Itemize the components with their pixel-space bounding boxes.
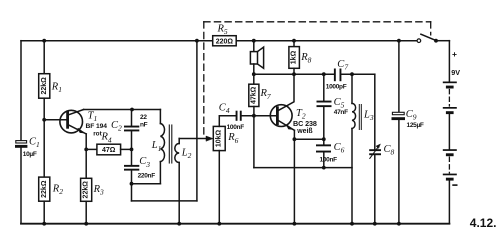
- wire C3 bottom column: [131, 171, 133, 201]
- wire top rail left segment: [21, 40, 213, 42]
- svg-text:100nF: 100nF: [320, 157, 338, 164]
- wire bottom rail: [21, 223, 449, 225]
- node base tap T1: [42, 118, 46, 122]
- node R4 right junction: [130, 148, 134, 152]
- wire T1 collector rail: [84, 109, 161, 111]
- node bottom R6: [217, 222, 221, 226]
- node C3 bottom junction: [130, 182, 134, 186]
- capacitor C7: [334, 69, 342, 82]
- svg-text:22kΩ: 22kΩ: [41, 77, 48, 95]
- node supply column top: [195, 39, 199, 43]
- wire L2 top to R6 with arrow: [179, 138, 207, 140]
- svg-text:100nF: 100nF: [227, 124, 245, 131]
- wire R8 bottom lead: [293, 68, 295, 74]
- battery 9V: [443, 41, 458, 224]
- wire C8 column upper: [374, 74, 376, 149]
- capacitor C9: [392, 112, 406, 120]
- wire R2 to bottom rail: [43, 201, 45, 224]
- node L3 top junction: [350, 72, 354, 76]
- wire C2 column top: [131, 110, 133, 127]
- switch S: [417, 34, 449, 42]
- wire mid rail: [254, 73, 335, 75]
- svg-text:rot: rot: [93, 130, 102, 137]
- L3 core: [359, 105, 361, 130]
- speaker LS: [250, 47, 263, 68]
- wire R6 bottom: [218, 151, 220, 224]
- inductor L1: [160, 110, 164, 184]
- node emitter R4 tap: [84, 148, 88, 152]
- resistor R7: [249, 84, 259, 106]
- svg-text:22: 22: [140, 114, 147, 121]
- wire base T1: [44, 119, 67, 121]
- svg-text:22kΩ: 22kΩ: [41, 180, 48, 198]
- svg-text:10µF: 10µF: [23, 151, 37, 158]
- wire R8 top lead: [293, 41, 295, 47]
- node speaker R7 junction: [252, 72, 256, 76]
- resistor R4: [97, 144, 121, 155]
- wire R1 to base tap: [43, 98, 45, 177]
- inductor L3: [352, 74, 356, 224]
- node R8 top rail: [292, 39, 296, 43]
- transistor T1: [60, 110, 86, 134]
- wire C9 column upper: [398, 41, 400, 113]
- wire base node to C6 bottom: [254, 167, 352, 169]
- wire C4 to T2 base: [242, 115, 277, 117]
- wire R4 left lead: [86, 148, 97, 150]
- wire R7 bottom lead: [253, 107, 255, 116]
- node emitter wire at C5C6 column: [322, 137, 326, 141]
- wire top rail right segment: [236, 40, 417, 42]
- capacitor C3: [124, 165, 139, 171]
- svg-text:weiß: weiß: [296, 128, 313, 135]
- node top rail R1 junction: [42, 39, 46, 43]
- capacitor C8 trimmer: [369, 144, 381, 158]
- wire T2 collector: [278, 74, 294, 111]
- node C6 bottom junction: [322, 166, 326, 170]
- node emitter bottom rail: [293, 222, 297, 226]
- svg-text:220nF: 220nF: [138, 172, 156, 179]
- capacitor C2: [124, 126, 139, 132]
- resistor R3: [81, 178, 92, 201]
- svg-text:+: +: [452, 49, 457, 59]
- resistor R1: [39, 74, 50, 99]
- node emitter branch: [293, 137, 297, 141]
- node collector C2 junction: [130, 108, 134, 112]
- node L3 bottom rail: [350, 222, 354, 226]
- node speaker top rail: [252, 39, 256, 43]
- wire R3 to bottom rail: [85, 201, 87, 223]
- wire C6 bottom lead: [323, 153, 325, 168]
- wire R1 column upper: [43, 41, 45, 74]
- node bottom R3: [84, 222, 88, 226]
- transistor T2: [270, 105, 294, 131]
- resistor R5: [213, 36, 237, 46]
- wire T2 emitter column: [293, 130, 295, 223]
- wire C5 top lead: [323, 74, 325, 101]
- node C5 top junction: [322, 72, 326, 76]
- resistor R8: [289, 47, 300, 69]
- wire emitter to C6 top: [294, 138, 323, 140]
- svg-text:BF 194: BF 194: [86, 123, 108, 130]
- wire speaker bottom: [253, 64, 255, 74]
- resistor R2: [39, 177, 50, 201]
- resistor R6: [213, 126, 225, 150]
- wire C7 right to C8 corner: [341, 73, 374, 75]
- svg-text:47Ω: 47Ω: [102, 147, 116, 154]
- svg-text:1kΩ: 1kΩ: [291, 50, 298, 64]
- node L2 bottom rail: [177, 222, 181, 226]
- svg-text:BC 238: BC 238: [293, 119, 317, 128]
- svg-text:22kΩ: 22kΩ: [83, 181, 90, 199]
- svg-text:220Ω: 220Ω: [216, 38, 234, 45]
- capacitor C4: [236, 111, 242, 121]
- svg-text:4.12.: 4.12.: [470, 216, 497, 230]
- capacitor C6: [316, 144, 331, 152]
- svg-text:47kΩ: 47kΩ: [250, 86, 257, 104]
- wire C3 junction to L1 bottom: [132, 183, 161, 185]
- svg-text:10kΩ: 10kΩ: [216, 129, 223, 147]
- node C8 bottom rail: [373, 222, 377, 226]
- wire left rail upper: [20, 41, 22, 141]
- wire R6 top to C4: [219, 116, 236, 127]
- wire speaker top: [253, 41, 255, 52]
- wire C2 to C3: [131, 131, 133, 165]
- svg-text:125µF: 125µF: [407, 122, 424, 129]
- node C9 bottom rail: [397, 222, 401, 226]
- transformer core: [169, 125, 172, 163]
- wire T1 emitter column: [85, 134, 87, 178]
- wire base node down: [253, 116, 255, 168]
- svg-text:1000pF: 1000pF: [326, 83, 347, 90]
- node T2 collector junction: [292, 72, 296, 76]
- dashed link top: [204, 22, 431, 135]
- wire C9 column lower: [398, 120, 400, 224]
- wire supply column: [196, 41, 198, 201]
- wire R4 right lead: [121, 148, 132, 150]
- wire C8 column lower: [374, 155, 376, 224]
- svg-text:nF: nF: [140, 122, 148, 129]
- wire C5 to C6: [323, 107, 325, 145]
- wire supply return bottom: [132, 200, 197, 202]
- capacitor C1: [15, 141, 27, 148]
- svg-text:9V: 9V: [451, 68, 460, 77]
- svg-text:47nF: 47nF: [334, 109, 348, 116]
- wire left rail lower: [20, 148, 22, 224]
- capacitor C5: [317, 101, 332, 108]
- inductor L2: [175, 139, 179, 224]
- wire R7 top lead: [253, 74, 255, 84]
- node T2 base junction: [252, 114, 256, 118]
- node bottom R2: [42, 222, 46, 226]
- node C9 top rail: [397, 39, 401, 43]
